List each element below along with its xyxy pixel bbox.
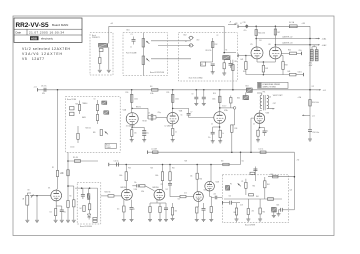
svg-text:100k: 100k	[212, 99, 216, 101]
svg-text:C3: C3	[94, 99, 96, 101]
svg-text:470u: 470u	[309, 63, 313, 65]
svg-text:100k: 100k	[155, 175, 159, 177]
svg-text:C50 100n: C50 100n	[312, 132, 319, 134]
svg-text:K1: K1	[185, 41, 187, 43]
svg-text:R25: R25	[151, 168, 154, 170]
svg-text:R42: R42	[265, 68, 268, 70]
svg-text:C39: C39	[243, 22, 246, 24]
svg-text:V5 12AT7: V5 12AT7	[22, 57, 44, 61]
svg-text:Board: Board	[106, 145, 110, 147]
svg-text:C4 22n: C4 22n	[70, 147, 75, 149]
svg-text:Board VORSTUFE: Board VORSTUFE	[150, 71, 165, 74]
svg-text:R1: R1	[52, 167, 54, 169]
svg-text:C44 1n: C44 1n	[298, 72, 303, 74]
svg-text:Buch SOLO/LEAD: Buch SOLO/LEAD	[189, 76, 204, 79]
svg-text:R48: R48	[285, 65, 288, 67]
svg-text:TREBLE: TREBLE	[82, 103, 87, 105]
svg-text:21.07.2005 16:00:34: 21.07.2005 16:00:34	[29, 30, 64, 34]
svg-text:R4: R4	[70, 196, 72, 198]
svg-text:Si2 1A: Si2 1A	[289, 21, 295, 24]
svg-text:R41: R41	[241, 59, 244, 61]
svg-text:22u: 22u	[64, 212, 67, 214]
svg-text:1/2: 1/2	[270, 56, 272, 58]
svg-text:1k5: 1k5	[117, 209, 119, 211]
svg-text:10k: 10k	[190, 176, 193, 178]
svg-text:TR1: TR1	[263, 91, 266, 93]
svg-text:1k: 1k	[175, 132, 177, 134]
svg-text:R47: R47	[277, 32, 280, 34]
svg-text:R11 470k: R11 470k	[206, 50, 212, 52]
svg-text:R12: R12	[215, 44, 218, 46]
svg-text:+H2: +H2	[297, 160, 300, 162]
svg-text:C12: C12	[161, 184, 164, 186]
svg-text:P2: P2	[230, 184, 232, 186]
svg-text:C1: C1	[131, 34, 133, 36]
svg-text:R61: R61	[267, 184, 270, 186]
svg-text:R64: R64	[256, 196, 259, 198]
svg-text:C2: C2	[217, 35, 219, 37]
svg-text:C13: C13	[178, 199, 181, 201]
svg-text:R63: R63	[234, 212, 237, 214]
svg-text:Ls1 22R: Ls1 22R	[151, 148, 158, 150]
svg-text:R18: R18	[235, 128, 238, 130]
svg-text:V5: V5	[250, 44, 252, 46]
svg-text:-U1: -U1	[312, 115, 315, 117]
svg-text:C41: C41	[259, 40, 262, 42]
svg-text:R22 10k: R22 10k	[86, 128, 91, 130]
svg-text:R24 470k: R24 470k	[105, 192, 111, 194]
svg-text:C45: C45	[269, 97, 272, 99]
svg-text:100k: 100k	[175, 99, 179, 101]
svg-text:C6: C6	[181, 115, 183, 117]
svg-text:HDB: HDB	[31, 37, 37, 41]
svg-text:V2B: V2B	[204, 190, 207, 192]
svg-text:V1/2 selected 12AX7EH: V1/2 selected 12AX7EH	[22, 47, 71, 51]
svg-text:+UB1: +UB1	[302, 23, 306, 25]
svg-text:Board DOUBLE: Board DOUBLE	[80, 225, 93, 228]
svg-text:+U1: +U1	[34, 86, 37, 88]
svg-text:R28: R28	[185, 161, 188, 163]
svg-text:+U1: +U1	[323, 90, 327, 92]
svg-text:22u: 22u	[208, 137, 211, 139]
svg-text:1/2: 1/2	[253, 124, 255, 126]
svg-text:TONE 1: TONE 1	[106, 147, 111, 149]
svg-text:BU2: BU2	[184, 34, 187, 36]
svg-text:470k: 470k	[141, 191, 144, 193]
svg-text:Board MAIN: Board MAIN	[52, 23, 68, 27]
svg-text:39k: 39k	[175, 211, 178, 213]
svg-text:electronic: electronic	[41, 37, 54, 41]
svg-text:R60: R60	[271, 174, 274, 176]
svg-text:Si1: Si1	[150, 86, 153, 88]
svg-text:+UA2: +UA2	[322, 44, 327, 47]
svg-text:R20: R20	[76, 104, 79, 106]
svg-text:C9: C9	[192, 94, 194, 96]
svg-text:R43: R43	[243, 71, 246, 73]
svg-text:+UA1: +UA1	[322, 38, 327, 41]
svg-text:1/2: 1/2	[251, 56, 253, 58]
svg-text:R62: R62	[253, 186, 256, 188]
svg-text:C20: C20	[290, 190, 293, 192]
svg-text:100k: 100k	[134, 99, 138, 101]
svg-text:1k5: 1k5	[50, 212, 52, 214]
svg-text:R5 47k: R5 47k	[73, 157, 78, 159]
svg-text:Ls2 1k: Ls2 1k	[259, 148, 264, 150]
svg-text:MID: MID	[93, 132, 96, 134]
svg-text:Date: Date	[16, 30, 22, 34]
svg-text:47k: 47k	[252, 211, 255, 213]
svg-text:V3A/V6 12AX7EH: V3A/V6 12AX7EH	[22, 52, 63, 56]
svg-text:R8 47k: R8 47k	[136, 106, 141, 108]
svg-text:C10 1u: C10 1u	[114, 161, 119, 163]
svg-text:R10: R10	[126, 92, 129, 94]
svg-text:BU5: BU5	[277, 205, 280, 207]
svg-text:V1: V1	[48, 187, 50, 189]
svg-text:R15: R15	[167, 92, 170, 94]
svg-text:Si3: Si3	[221, 161, 223, 163]
svg-text:22u: 22u	[146, 133, 149, 135]
svg-text:1k: 1k	[267, 130, 269, 132]
svg-text:1k5: 1k5	[134, 133, 137, 135]
svg-text:OUT: OUT	[273, 103, 276, 105]
svg-text:LED: LED	[197, 40, 200, 42]
svg-text:22n: 22n	[134, 182, 137, 184]
svg-text:BU4: BU4	[237, 98, 240, 100]
svg-text:Board TONE: Board TONE	[67, 99, 76, 101]
svg-text:C15: C15	[184, 193, 187, 195]
svg-text:R23: R23	[128, 168, 131, 170]
svg-text:V6: V6	[268, 44, 270, 46]
svg-text:R26: R26	[172, 168, 175, 170]
svg-text:BU3: BU3	[246, 85, 249, 87]
svg-text:UEBER 0.775 VRMS: UEBER 0.775 VRMS	[263, 87, 276, 89]
svg-text:47u: 47u	[244, 30, 247, 32]
svg-text:470p: 470p	[158, 112, 161, 114]
svg-text:R46: R46	[288, 50, 291, 52]
svg-text:22n: 22n	[214, 193, 217, 195]
svg-text:400V: 400V	[309, 65, 313, 67]
svg-text:V2: V2	[166, 189, 168, 191]
svg-text:+H1: +H1	[110, 23, 113, 25]
svg-text:1u: 1u	[134, 209, 136, 211]
svg-text:RR2-VV-S5: RR2-VV-S5	[16, 22, 49, 29]
svg-text:C7: C7	[190, 112, 192, 114]
svg-text:C5: C5	[148, 113, 150, 115]
svg-text:100k: 100k	[119, 175, 123, 177]
svg-text:R30: R30	[200, 179, 203, 181]
svg-text:R14: R14	[235, 61, 238, 63]
svg-text:1n: 1n	[130, 47, 132, 49]
svg-text:470k: 470k	[299, 50, 302, 52]
svg-text:PRESET 1: PRESET 1	[92, 37, 100, 39]
svg-text:C16: C16	[229, 196, 232, 198]
svg-text:C18: C18	[240, 205, 243, 207]
svg-text:100k: 100k	[60, 173, 64, 175]
svg-text:P3: P3	[242, 181, 244, 183]
svg-text:1/2: 1/2	[211, 124, 213, 126]
svg-text:R40 220k: R40 220k	[258, 33, 265, 35]
svg-text:C8 47u: C8 47u	[41, 86, 47, 88]
svg-text:C11: C11	[242, 161, 245, 163]
svg-text:Board DRIVE: Board DRIVE	[245, 224, 256, 227]
svg-text:R44: R44	[288, 71, 291, 73]
svg-text:R65: R65	[263, 212, 266, 214]
svg-text:K3: K3	[226, 50, 228, 52]
svg-text:Poti VOLUME: Poti VOLUME	[126, 52, 137, 55]
svg-text:C47: C47	[312, 86, 315, 88]
svg-text:R50 100k: R50 100k	[312, 102, 319, 104]
svg-text:K2: K2	[201, 64, 203, 66]
svg-text:R16: R16	[213, 93, 216, 95]
svg-text:F1: F1	[240, 23, 242, 25]
svg-text:BU1: BU1	[127, 30, 130, 32]
